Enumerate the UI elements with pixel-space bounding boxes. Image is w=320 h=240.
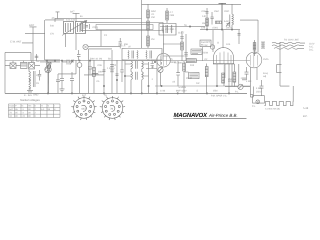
svg-text:P.L.: P.L. [235, 91, 239, 94]
svg-text:10M: 10M [98, 71, 103, 73]
capacitor C15 [259, 80, 263, 96]
svg-text:OSC: OSC [224, 10, 229, 13]
wire: C.W. switch stub [22, 33, 45, 43]
oscillator value labels [201, 10, 232, 30]
wire: long vertical IF lead [141, 0, 143, 48]
svg-text:8MF: 8MF [228, 78, 233, 81]
wire: antenna lead-in top left [29, 27, 36, 62]
svg-text:2000: 2000 [226, 27, 232, 30]
jack J1 [77, 63, 82, 68]
wire: grid lead top [45, 19, 64, 21]
svg-text:.1: .1 [84, 31, 87, 34]
wire: mid bus [160, 26, 205, 28]
tube V4 output dome [213, 48, 233, 64]
variable capacitor C6 tuning gang section 2 [76, 21, 86, 33]
corner annotation [303, 106, 309, 118]
tube V5 second detector [157, 53, 171, 67]
svg-text:1W: 1W [196, 83, 200, 85]
tube socket diagram 1 [71, 96, 96, 120]
capacitor C3 trimmer beside coil [38, 70, 41, 81]
svg-text:1A6: 1A6 [201, 27, 206, 30]
ground chassis at antenna coil [27, 87, 33, 93]
brand logo MAGNAVOX [173, 113, 246, 119]
svg-text:TO 110V LINE: TO 110V LINE [284, 40, 299, 42]
wire: left vertical bus [5, 52, 31, 93]
svg-text:GND: GND [33, 93, 39, 96]
diode label box [191, 49, 202, 54]
resistor R1 block row [10, 63, 16, 69]
svg-text:78: 78 [110, 108, 113, 111]
inductor L2 antenna coil secondary [29, 79, 31, 89]
wire horizontals [40, 62, 60, 93]
wire: audio mid bus [155, 85, 250, 87]
oscillator section vertical 1 [206, 8, 208, 30]
svg-text:Socket voltages: Socket voltages [20, 98, 40, 102]
svg-text:.0001: .0001 [92, 26, 99, 29]
svg-text:6A7: 6A7 [81, 108, 86, 111]
svg-text:1 MEG: 1 MEG [107, 67, 115, 70]
wire: det cross wires [163, 30, 184, 56]
svg-text:250M: 250M [202, 52, 208, 55]
tube V3 rectifier envelope [246, 52, 262, 68]
capacitor C24 on IF lead [119, 38, 122, 49]
transformer T1 first IF [159, 23, 176, 35]
svg-text:.02: .02 [172, 82, 176, 84]
wire: rectifier feed corner [240, 20, 258, 53]
svg-text:250: 250 [151, 16, 156, 19]
svg-text:.006: .006 [97, 64, 102, 67]
volume control pot [158, 67, 163, 72]
switch SW1 arm [45, 62, 51, 70]
label 2nd IF [118, 44, 126, 47]
svg-text:2A5: 2A5 [226, 43, 231, 46]
svg-text:25M: 25M [170, 14, 175, 17]
svg-text:6A7: 6A7 [70, 10, 75, 13]
core of antenna transformer [33, 71, 35, 87]
wire: bottom chassis bus [5, 92, 247, 94]
wire: output tube cathode leads [217, 64, 229, 94]
capacitor C13 [56, 74, 60, 94]
capacitor C27 [150, 61, 153, 69]
node junction small circle [83, 44, 88, 49]
wire: to output [185, 62, 189, 72]
capacitor C4 label [51, 17, 55, 20]
left mid cluster small parts [47, 62, 49, 77]
svg-text:.5 MEG: .5 MEG [178, 86, 186, 89]
svg-text:C-36: C-36 [160, 91, 166, 93]
core bar for osc coil [229, 15, 231, 27]
svg-text:D.C.: D.C. [309, 49, 314, 52]
svg-text:6A7: 6A7 [9, 108, 14, 111]
wire: vertical [103, 60, 105, 93]
shield box around tuner [81, 22, 163, 30]
capacitor C8 padder [206, 12, 209, 14]
svg-text:2A5: 2A5 [190, 64, 195, 67]
svg-text:25M: 25M [213, 91, 218, 93]
capacitor C1 label C.W. [10, 39, 22, 43]
wire: gang bottom to bus [66, 33, 77, 50]
svg-text:25Z5: 25Z5 [263, 58, 269, 61]
svg-text:.05: .05 [51, 17, 55, 20]
resistor R11 osc [216, 21, 222, 24]
node ANT label [29, 23, 35, 27]
svg-text:.05: .05 [96, 80, 100, 83]
svg-text:B+: B+ [80, 15, 84, 18]
wire: audio cross ties [125, 64, 149, 76]
resistor R6 [92, 67, 95, 76]
rheostat circle with arrow [238, 84, 243, 89]
pilot lamp [256, 100, 260, 104]
svg-text:.0001: .0001 [212, 27, 219, 30]
component table [8, 104, 60, 118]
wire: tuning box left edge [45, 20, 60, 60]
svg-text:P.L.: P.L. [252, 106, 256, 108]
wire: audio feed verticals [125, 61, 149, 94]
svg-text:2M: 2M [151, 38, 154, 41]
wire: top distribution [142, 3, 241, 5]
capacitor C30 [110, 64, 114, 66]
ballast resistor line cord comb [264, 86, 293, 106]
wire: pilot lamp ladder [250, 87, 253, 98]
svg-text:8MF-150V: 8MF-150V [176, 91, 187, 93]
resistor R14 [147, 36, 150, 46]
capacitor C29 [35, 56, 39, 58]
tube V1 first detector top cap lead [73, 13, 80, 22]
svg-text:2nd I.F.: 2nd I.F. [118, 44, 126, 47]
svg-text:adj: adj [263, 75, 267, 78]
svg-text:C1 904 A05 (B): C1 904 A05 (B) [265, 108, 280, 111]
wire: small comb resistor [84, 73, 104, 75]
variable trimmer arrow circle [45, 66, 51, 72]
svg-text:4 - 2xx: 4 - 2xx [24, 93, 32, 97]
gang arrow [62, 20, 87, 35]
wire: link [58, 60, 76, 74]
svg-text:C1a C1b: C1a C1b [66, 19, 76, 21]
svg-text:170: 170 [50, 33, 55, 35]
tube socket diagram 2 [100, 96, 125, 120]
svg-text:5-38: 5-38 [303, 106, 309, 110]
cluster caps labels [84, 31, 117, 83]
resistor R2 block row [28, 62, 34, 69]
svg-text:Tube: Tube [9, 106, 15, 108]
wire: vertical [116, 60, 118, 93]
variable capacitor C5 tuning gang section 1 [64, 21, 74, 33]
svg-text:C.W. ANT: C.W. ANT [10, 39, 22, 43]
resistor R4 on IF lead [166, 11, 169, 20]
svg-text:C9: C9 [36, 83, 40, 85]
junction dot [189, 26, 190, 27]
wave trap triangle [46, 63, 51, 74]
inductor L3 oscillator coil [232, 4, 233, 29]
wire: right B+ drop [280, 42, 289, 86]
svg-text:.006: .006 [201, 10, 206, 13]
ground chassis small [59, 86, 64, 92]
capacitor C10 [238, 30, 241, 44]
pilot lamp box [253, 96, 265, 103]
svg-text:500M: 500M [170, 62, 176, 64]
audio transformer T3 windings lower [131, 72, 143, 80]
capacitor C2 block row [20, 62, 27, 68]
wire: audio verticals [131, 60, 142, 93]
resistor R5 screen divider [254, 40, 256, 56]
svg-text:50M .01 2M: 50M .01 2M [90, 58, 102, 60]
wire: osc bottom bus [200, 29, 240, 31]
wire: long mid bus [5, 60, 250, 62]
svg-text:55 osc: 55 osc [201, 45, 209, 47]
wire: output tube leads [213, 30, 223, 52]
power line cord wavy leads [272, 42, 305, 44]
tuning cap arrow symbol [62, 59, 74, 64]
capacitor C23 [184, 53, 188, 57]
wire: trap stem [48, 73, 50, 93]
svg-text:Air-Prince B.B.: Air-Prince B.B. [208, 113, 238, 118]
table cell text [9, 106, 56, 118]
audio section box left [88, 49, 112, 93]
capacitor C21 [88, 61, 92, 75]
label box detector [200, 40, 211, 47]
inductor L5 speaker field [224, 64, 225, 78]
svg-text:P.M. SPKR V.C.: P.M. SPKR V.C. [211, 96, 228, 98]
resistor R9 [222, 73, 225, 83]
svg-text:ANT: ANT [29, 23, 35, 27]
svg-text:58: 58 [108, 58, 111, 60]
svg-text:25M: 25M [214, 10, 219, 13]
capacitor C22 [180, 37, 184, 39]
wire: link to right [88, 45, 101, 47]
junction dots bottom bus [47, 93, 48, 94]
resistor R8 [205, 67, 208, 77]
capacitor C28 below rectifier [244, 67, 248, 80]
svg-text:6A7: 6A7 [82, 94, 87, 97]
dial scale inner rect [96, 24, 153, 29]
capacitor C20 on cathode lead [77, 50, 81, 61]
capacitor C18 osc grid [211, 12, 214, 25]
audio transformer T2 windings [131, 61, 143, 69]
capacitor C14 electrolytic [242, 78, 246, 80]
wire: stub to parts row [13, 61, 32, 63]
output label box [188, 73, 199, 79]
junction dots mid bus [46, 60, 47, 61]
wire: antenna branch verticals [31, 52, 37, 60]
svg-text:250V: 250V [256, 91, 262, 94]
socket caption [82, 94, 107, 97]
wire: verticals to bottom [232, 64, 239, 86]
speaker text row [196, 83, 228, 98]
tube V2 IF amp vertical lead [166, 8, 168, 23]
wire: rectifier leads [250, 67, 257, 87]
capacitor C12 [115, 74, 118, 76]
wire: tie [146, 67, 157, 69]
output transformer label box dark [186, 59, 196, 63]
resistor R13 [147, 21, 150, 30]
svg-text:350: 350 [202, 22, 207, 25]
capacitor C25 [60, 61, 64, 86]
power line label [284, 40, 299, 42]
junction dots osc bus [206, 29, 207, 30]
svg-text:SG: SG [28, 106, 31, 108]
wire: AVC stub [101, 30, 120, 47]
wire: long top bus [55, 12, 142, 22]
svg-text:B.P.: B.P. [303, 114, 308, 118]
resistor R7 [183, 64, 186, 72]
capacitor C7 inside shield box [84, 24, 90, 29]
underline [173, 117, 246, 119]
capacitor C26 [120, 61, 123, 82]
svg-text:4 MF: 4 MF [246, 80, 252, 83]
wire: IF out lead [156, 58, 158, 93]
second IF can [122, 48, 162, 60]
svg-text:.5: .5 [196, 91, 199, 93]
trimmer capacitor C19 [226, 22, 230, 27]
resistor R3 vertical dotted stack [147, 4, 149, 48]
resistor R15 osc anode [206, 18, 209, 26]
svg-text:140: 140 [202, 15, 207, 18]
svg-text:2nd DET: 2nd DET [201, 42, 211, 44]
junction dot on mid bus [54, 60, 55, 61]
svg-text:540: 540 [50, 25, 55, 27]
small bracket near top of drop [276, 65, 281, 73]
junction dots [103, 85, 104, 86]
svg-text:.1: .1 [151, 79, 154, 81]
svg-text:C2: C2 [104, 34, 108, 37]
capacitor C17 coupling [176, 61, 180, 87]
svg-text:G: G [217, 42, 219, 45]
detector chain vertical pair [182, 31, 186, 61]
svg-text:75 .0001: 75 .0001 [147, 60, 157, 62]
inductor L1 antenna coil primary [29, 69, 31, 81]
svg-text:6-60: 6-60 [224, 20, 229, 23]
svg-text:G & T: G & T [178, 32, 185, 35]
wire: row link [5, 64, 40, 66]
resistor R10 [233, 72, 236, 82]
resistor R12 [181, 42, 184, 50]
svg-text:G: G [22, 106, 24, 108]
capacitor C16 [70, 72, 74, 93]
audio value labels [147, 60, 157, 81]
small circle grid cap [210, 45, 214, 49]
oscillator section vertical 2 [219, 3, 227, 30]
capacitor C11 [102, 70, 105, 72]
table caption [20, 93, 40, 102]
inductor L4 filter choke small [261, 42, 265, 48]
capacitor C9 [253, 52, 257, 54]
